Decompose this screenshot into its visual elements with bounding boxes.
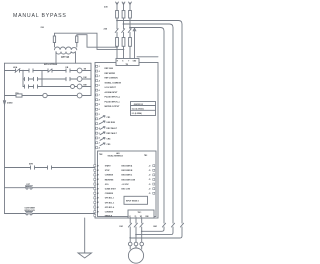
svg-text:REF FAULT: REF FAULT xyxy=(107,132,118,135)
terminal lower row COMMON xyxy=(94,211,96,213)
svg-text:GPS BCL 4: GPS BCL 4 xyxy=(105,206,114,209)
svg-text:-4: -4 xyxy=(98,79,100,82)
contact 4 rung1 xyxy=(66,69,70,72)
svg-text:USE RUN: USE RUN xyxy=(107,122,116,124)
wire secondary right drop xyxy=(75,53,77,64)
overload OL V xyxy=(134,242,138,246)
transformer CPT secondary winding xyxy=(56,52,76,55)
wire motor phase U xyxy=(129,218,131,250)
svg-text:PULSE INPUT (-): PULSE INPUT (-) xyxy=(105,101,120,103)
svg-text:2GND: 2GND xyxy=(7,103,13,105)
relay output arrow CR4 xyxy=(100,138,105,141)
svg-text:GUIDE SHUT: GUIDE SHUT xyxy=(105,189,117,191)
wire L2 supply vertical xyxy=(123,3,125,59)
terminal lower row GUIDE SHUT xyxy=(94,188,96,190)
wire fuse to winding left xyxy=(54,43,56,48)
wire bypass A join xyxy=(130,227,182,238)
relay output arrow USE RUN xyxy=(100,121,105,124)
wire chassis bond to right edge xyxy=(137,56,158,58)
svg-text:230: 230 xyxy=(104,29,108,31)
fuse FU4 xyxy=(116,38,119,47)
wire rung 6 xyxy=(5,187,96,189)
incoming line arrow L2 xyxy=(122,2,125,5)
svg-text:GPS BCL 3: GPS BCL 3 xyxy=(105,202,114,204)
terminal lower row GPS BCL 4 xyxy=(94,206,96,208)
wire motor phase W xyxy=(141,218,143,250)
wire control left rail xyxy=(4,63,6,213)
svg-text:0-1 (4-20MA): 0-1 (4-20MA) xyxy=(132,112,142,115)
wire bypass C join xyxy=(142,227,164,231)
svg-text:BM: BM xyxy=(154,226,157,228)
svg-text:REF COMMON: REF COMMON xyxy=(105,78,119,80)
wire rung 4 xyxy=(5,95,92,97)
contactor DM contact V xyxy=(134,223,137,227)
terminal block TB1 output xyxy=(128,210,154,218)
svg-text:-3: -3 xyxy=(98,76,100,78)
svg-text:DRV FAULT: DRV FAULT xyxy=(107,127,118,130)
contact 1 rung5 xyxy=(31,166,35,169)
svg-text:REF WIPER: REF WIPER xyxy=(105,73,116,75)
wire rung 5 xyxy=(5,167,96,169)
coil M rung1 xyxy=(77,68,82,73)
pushbutton rung7 xyxy=(26,212,33,215)
svg-text:START: START xyxy=(105,165,112,168)
wire bypass phase C to right side xyxy=(130,28,164,224)
overload contact rung4 xyxy=(16,94,22,97)
disconnect switch blade L2 xyxy=(122,29,125,33)
fuse FU3 xyxy=(129,11,132,19)
node tap L2 xyxy=(123,23,125,25)
terminal block TB input xyxy=(116,59,139,66)
motor M1 xyxy=(128,248,143,263)
terminal lower row COMMON xyxy=(94,192,96,194)
relay output arrow REF FAULT xyxy=(100,132,105,135)
svg-text:AFB: AFB xyxy=(29,163,34,166)
svg-text:ENCODER B: ENCODER B xyxy=(122,170,133,172)
svg-text:0-10V INPUT: 0-10V INPUT xyxy=(105,87,117,89)
fuse CPT primary right xyxy=(76,36,78,43)
ground PE symbol xyxy=(78,253,92,258)
terminal lower row GPS BCL 3 xyxy=(94,201,96,203)
terminal lower row JOG xyxy=(94,183,96,185)
fuse FU6 xyxy=(129,38,132,47)
svg-text:-5: -5 xyxy=(98,85,100,87)
contact 2 rung2 xyxy=(34,77,38,80)
node bypass join V xyxy=(135,234,137,236)
pilot light rung4 xyxy=(43,93,47,97)
contact 1 rung1 xyxy=(15,69,20,73)
svg-text:TB2: TB2 xyxy=(99,154,102,156)
ground PE drop xyxy=(84,218,86,253)
node branch left xyxy=(22,70,24,72)
wire rung 2 xyxy=(23,78,91,80)
node tap L1 xyxy=(116,20,118,22)
relay output arrow CR5 xyxy=(100,143,105,146)
terminal lower row COMMON xyxy=(94,174,96,176)
wire rung 1 xyxy=(5,70,92,72)
wire CPT primary left leg xyxy=(55,33,124,49)
svg-text:INPUT MODE 3: INPUT MODE 3 xyxy=(126,201,139,203)
coil rung4 xyxy=(77,93,82,98)
svg-text:-8: -8 xyxy=(98,100,100,102)
svg-text:-3: -3 xyxy=(98,123,100,125)
svg-text:REVERSE: REVERSE xyxy=(105,179,114,181)
contactor BM contact C xyxy=(180,223,183,227)
svg-text:JUMPER J5: JUMPER J5 xyxy=(134,104,143,106)
svg-text:DM: DM xyxy=(120,226,123,228)
terminal lower row STOP xyxy=(94,169,96,171)
svg-text:-0: -0 xyxy=(98,109,100,111)
svg-text:230: 230 xyxy=(41,27,45,29)
input mode box xyxy=(124,196,148,204)
svg-text:REF 5000: REF 5000 xyxy=(105,68,114,70)
svg-text:-7: -7 xyxy=(98,143,100,145)
svg-text:ENABLE: ENABLE xyxy=(105,214,113,217)
contactor DM contact U xyxy=(128,223,131,227)
terminal lower row GPS BCL 1 xyxy=(94,197,96,199)
node tap L3 xyxy=(129,27,131,29)
svg-text:COMMON: COMMON xyxy=(105,193,114,195)
wire CPT primary right leg xyxy=(77,35,117,48)
terminal squares upper column xyxy=(96,65,100,149)
wire branch vertical left xyxy=(22,71,24,87)
svg-text:DM: DM xyxy=(84,77,87,79)
wire L1 supply vertical xyxy=(116,3,118,59)
svg-text:CR1: CR1 xyxy=(107,117,111,119)
svg-text:COMMON: COMMON xyxy=(105,175,114,177)
svg-text:ENCODER COM: ENCODER COM xyxy=(122,179,136,181)
svg-text:METER OUTPUT: METER OUTPUT xyxy=(105,106,121,108)
svg-text:CR5: CR5 xyxy=(107,144,111,146)
contact 1 rung3 xyxy=(25,85,29,88)
wire rung 7 xyxy=(5,213,96,215)
pushbutton rung6 xyxy=(26,186,33,189)
svg-text:-1: -1 xyxy=(98,66,100,68)
svg-text:GPS BCL 1: GPS BCL 1 xyxy=(105,198,114,200)
svg-text:-8: -8 xyxy=(98,147,100,149)
svg-text:ENCODER Z: ENCODER Z xyxy=(122,175,133,177)
disconnect switch blade L1 xyxy=(115,29,118,33)
contact 1 rung2 xyxy=(25,77,29,80)
svg-text:COMMON: COMMON xyxy=(105,212,114,214)
incoming line arrow L3 xyxy=(129,2,132,5)
svg-text:4-20MA INPUT: 4-20MA INPUT xyxy=(105,91,119,94)
node cpt tap phase1 xyxy=(116,46,118,48)
jumper J5 box xyxy=(131,102,156,116)
contact 3 rung2 xyxy=(66,77,70,80)
svg-text:CPT 1B: CPT 1B xyxy=(61,57,70,59)
wire rung 3 xyxy=(23,86,91,88)
relay output arrow DRV FAULT xyxy=(100,127,105,130)
contactor BM contact B xyxy=(171,223,174,227)
svg-text:+12 VDC: +12 VDC xyxy=(122,184,130,186)
terminal lower row ENABLE xyxy=(94,214,96,216)
incoming line arrow L1 xyxy=(116,2,119,5)
wire bypass phase B to right side xyxy=(124,24,174,223)
svg-text:TB 1: TB 1 xyxy=(138,212,142,214)
svg-text:-2: -2 xyxy=(98,71,100,73)
terminal lower row REVERSE xyxy=(94,178,96,180)
svg-text:S: S xyxy=(122,61,123,63)
wire bypass B join xyxy=(136,227,173,235)
wire control right rail xyxy=(90,63,92,95)
svg-text:-5: -5 xyxy=(98,133,100,135)
disconnect switch blade L3 xyxy=(128,29,131,33)
contact 2 rung5 xyxy=(48,166,52,169)
terminal lower row START xyxy=(94,165,96,167)
svg-text:STOP: STOP xyxy=(105,170,111,172)
coil rung2 xyxy=(77,77,82,82)
wire fuse to winding right xyxy=(76,43,78,48)
svg-text:BM: BM xyxy=(84,85,87,87)
coil rung3 xyxy=(77,84,82,89)
svg-text:MANUAL BYPASS: MANUAL BYPASS xyxy=(13,13,67,19)
svg-text:ENCODER A: ENCODER A xyxy=(122,165,133,168)
svg-text:-1: -1 xyxy=(98,114,100,116)
svg-text:-6: -6 xyxy=(98,138,100,140)
transformer CPT primary winding xyxy=(55,47,77,50)
node cpt tap phase2 xyxy=(123,49,125,51)
wire ground feed to TB xyxy=(134,28,136,58)
fuse CPT primary left xyxy=(53,36,55,43)
svg-text:230: 230 xyxy=(104,7,108,9)
svg-text:-6: -6 xyxy=(98,90,100,92)
wire motor phase V xyxy=(135,218,137,250)
ground control rail xyxy=(3,101,5,105)
overload OL U xyxy=(128,242,132,246)
svg-text:AFDL BYPASS: AFDL BYPASS xyxy=(44,63,58,66)
pilot light rung3 xyxy=(71,85,75,89)
node bypass join W xyxy=(141,231,143,233)
svg-text:-9: -9 xyxy=(98,104,100,106)
wire secondary left drop xyxy=(55,53,57,64)
contactor BM contact A xyxy=(162,223,165,227)
contact 2 rung1 xyxy=(29,69,33,72)
fuse FU1 xyxy=(116,11,119,19)
ground feed arrow xyxy=(133,28,136,31)
svg-text:ENC COM: ENC COM xyxy=(122,189,131,191)
VFD drive block U1 xyxy=(95,63,158,219)
contact 3 rung1 selector xyxy=(48,69,52,72)
svg-text:PULSE INPUT (+): PULSE INPUT (+) xyxy=(105,97,121,99)
wire branch vertical right xyxy=(41,71,43,87)
lower interface box xyxy=(98,151,157,217)
wire L3 supply vertical xyxy=(129,3,131,59)
overload OL W xyxy=(140,242,144,246)
svg-text:T: T xyxy=(128,61,129,63)
svg-text:-4: -4 xyxy=(98,127,100,130)
wire control top rail xyxy=(5,62,92,64)
svg-text:JOG: JOG xyxy=(105,184,109,186)
fuse FU2 xyxy=(122,11,125,19)
svg-text:1M: 1M xyxy=(84,69,87,71)
wire bypass phase A to right side xyxy=(117,21,182,224)
relay output arrow CR1 xyxy=(100,116,105,119)
svg-text:TB3: TB3 xyxy=(144,155,147,157)
contact 2 rung3 xyxy=(34,85,38,88)
svg-text:-7: -7 xyxy=(98,95,100,97)
node bypass join U xyxy=(129,237,131,239)
contactor DM contact W xyxy=(140,223,143,227)
svg-text:SIGNAL COMMON: SIGNAL COMMON xyxy=(105,81,122,84)
fuse FU5 xyxy=(122,38,125,47)
svg-text:-2: -2 xyxy=(98,119,100,121)
svg-text:V-10 (0-10VDC): V-10 (0-10VDC) xyxy=(132,108,144,110)
